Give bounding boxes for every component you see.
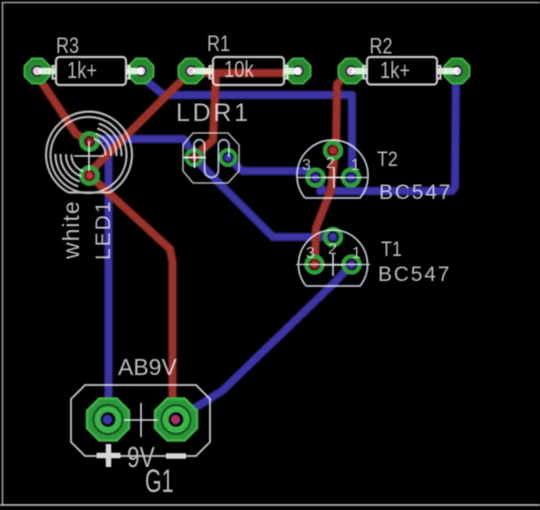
wire R1 left vertical to LDR1 left pad [194, 73, 216, 157]
wire R2 left pad to T2 pin2 [336, 71, 351, 148]
svg-text:LDR1: LDR1 [176, 99, 251, 127]
resistor R3 body [56, 57, 126, 85]
pad R1-1 [179, 59, 204, 84]
svg-text:R2: R2 [370, 35, 393, 59]
resistor R1 end tabs [210, 66, 214, 79]
pad LED1 cathode (bottom) [82, 168, 98, 184]
pad R3-1 [25, 59, 50, 84]
wire LDR1 left pad diagonal to T1 pin2 [195, 159, 331, 237]
cross T1 origin [323, 254, 343, 276]
wire T2 pin2 down to T1 pin3 [315, 150, 335, 262]
svg-text:2: 2 [326, 155, 335, 172]
svg-text:T1: T1 [381, 238, 402, 262]
cross LDR1 origin [183, 146, 206, 168]
svg-text:BC547: BC547 [378, 263, 451, 286]
LDR1 body outline [183, 133, 239, 183]
svg-text:3: 3 [306, 245, 315, 262]
resistor R2 end tabs [364, 66, 368, 79]
pad G1 - (right) [155, 399, 197, 441]
svg-text:LED1: LED1 [92, 199, 115, 260]
lead R1 left [193, 68, 213, 75]
svg-text:T2: T2 [377, 148, 398, 172]
LED1 wing arcs SW [55, 154, 78, 187]
lead R2 left [352, 68, 368, 75]
lead R3 right [126, 68, 143, 75]
LED1 outline circles [46, 112, 132, 193]
pad R3-2 [129, 59, 154, 84]
wire R3 right pad diagonal to bus [139, 75, 164, 95]
svg-text:BC547: BC547 [379, 181, 452, 204]
lead R2 right [437, 68, 458, 75]
svg-text:G1: G1 [145, 463, 174, 499]
wire horizontal bus y=95 to T2 pin1 column [164, 91, 352, 99]
wire vertical x=352 through T2 pin1 down to lower bus [348, 95, 356, 190]
pad R2-1 [339, 59, 364, 84]
LDR1 serpentine [194, 140, 229, 178]
wire R3 left pad to LED top pad [37, 75, 89, 141]
LED1 outer circle with flat bottom [46, 112, 132, 193]
svg-text:1k+: 1k+ [67, 58, 97, 83]
wire lower bus y=191 to R2 right column [320, 187, 452, 195]
pad G1 + (left) [87, 399, 129, 441]
pad T2 pin3 [308, 170, 324, 186]
crosses (origins) [74, 141, 344, 437]
board outline top edge [2, 2, 540, 4]
svg-text:1: 1 [352, 245, 361, 262]
pad T2 pin1 [343, 170, 359, 186]
wire R1 left pad to LED bottom pad [88, 71, 191, 174]
board outline left edge [2, 2, 4, 505]
pad LED1 anode (top) [82, 134, 98, 150]
pad T1 pin3 [307, 257, 323, 273]
T1 outline [299, 230, 368, 286]
resistor R2 body [367, 57, 437, 85]
lead R1 right [284, 68, 300, 75]
wire T2 pin3 stub to lower bus [316, 178, 322, 189]
svg-text:1k+: 1k+ [380, 58, 410, 83]
wire vertical LED to battery left pad [105, 139, 113, 413]
pad T1 pin1 [344, 257, 360, 273]
wire diagonal into LDR1 left pad [184, 139, 194, 156]
battery plus symbol [97, 444, 121, 467]
wire LED bottom pad to battery right pad [88, 174, 173, 415]
wire LED top pad horizontal to LDR [91, 135, 184, 143]
svg-text:AB9V: AB9V [118, 354, 177, 380]
svg-text:1: 1 [351, 157, 360, 174]
pad LDR1-1 (left) [187, 150, 202, 165]
resistor R3 end tabs [53, 66, 57, 79]
wire T1 pin1 to battery right pad [176, 265, 352, 420]
svg-text:10k: 10k [224, 57, 254, 82]
svg-text:white: white [58, 200, 84, 260]
cross T2 origin [324, 167, 344, 188]
LED1 wing arcs NE [55, 124, 121, 187]
battery minus symbol [166, 453, 186, 459]
svg-text:R1: R1 [207, 32, 230, 56]
board outline bottom edge [0, 504, 540, 506]
svg-text:2: 2 [328, 241, 337, 258]
svg-text:R3: R3 [56, 34, 79, 58]
pad R2-2 [445, 59, 470, 84]
wire R1 horizontal through body [191, 69, 284, 77]
wire vertical R2 right pad down [452, 71, 456, 191]
pad R1-2 [286, 59, 311, 84]
cross battery origin [124, 403, 158, 437]
battery G1 silk box [71, 385, 210, 456]
lead R3 left [39, 68, 56, 75]
resistor R1 body [213, 57, 284, 85]
svg-text:3: 3 [302, 157, 311, 174]
pad T1 pin2 [325, 229, 341, 245]
T1 pin row line [296, 264, 370, 266]
T2 outline [297, 140, 368, 198]
pad T2 pin2 [325, 143, 341, 159]
LED1 inner circle [51, 117, 127, 193]
T2 pin row line [297, 177, 368, 179]
pad LDR1-2 (right) [221, 150, 236, 165]
wire LDR1 right pad to T2 pin3 [229, 158, 316, 177]
cross LED1 origin [74, 141, 104, 171]
